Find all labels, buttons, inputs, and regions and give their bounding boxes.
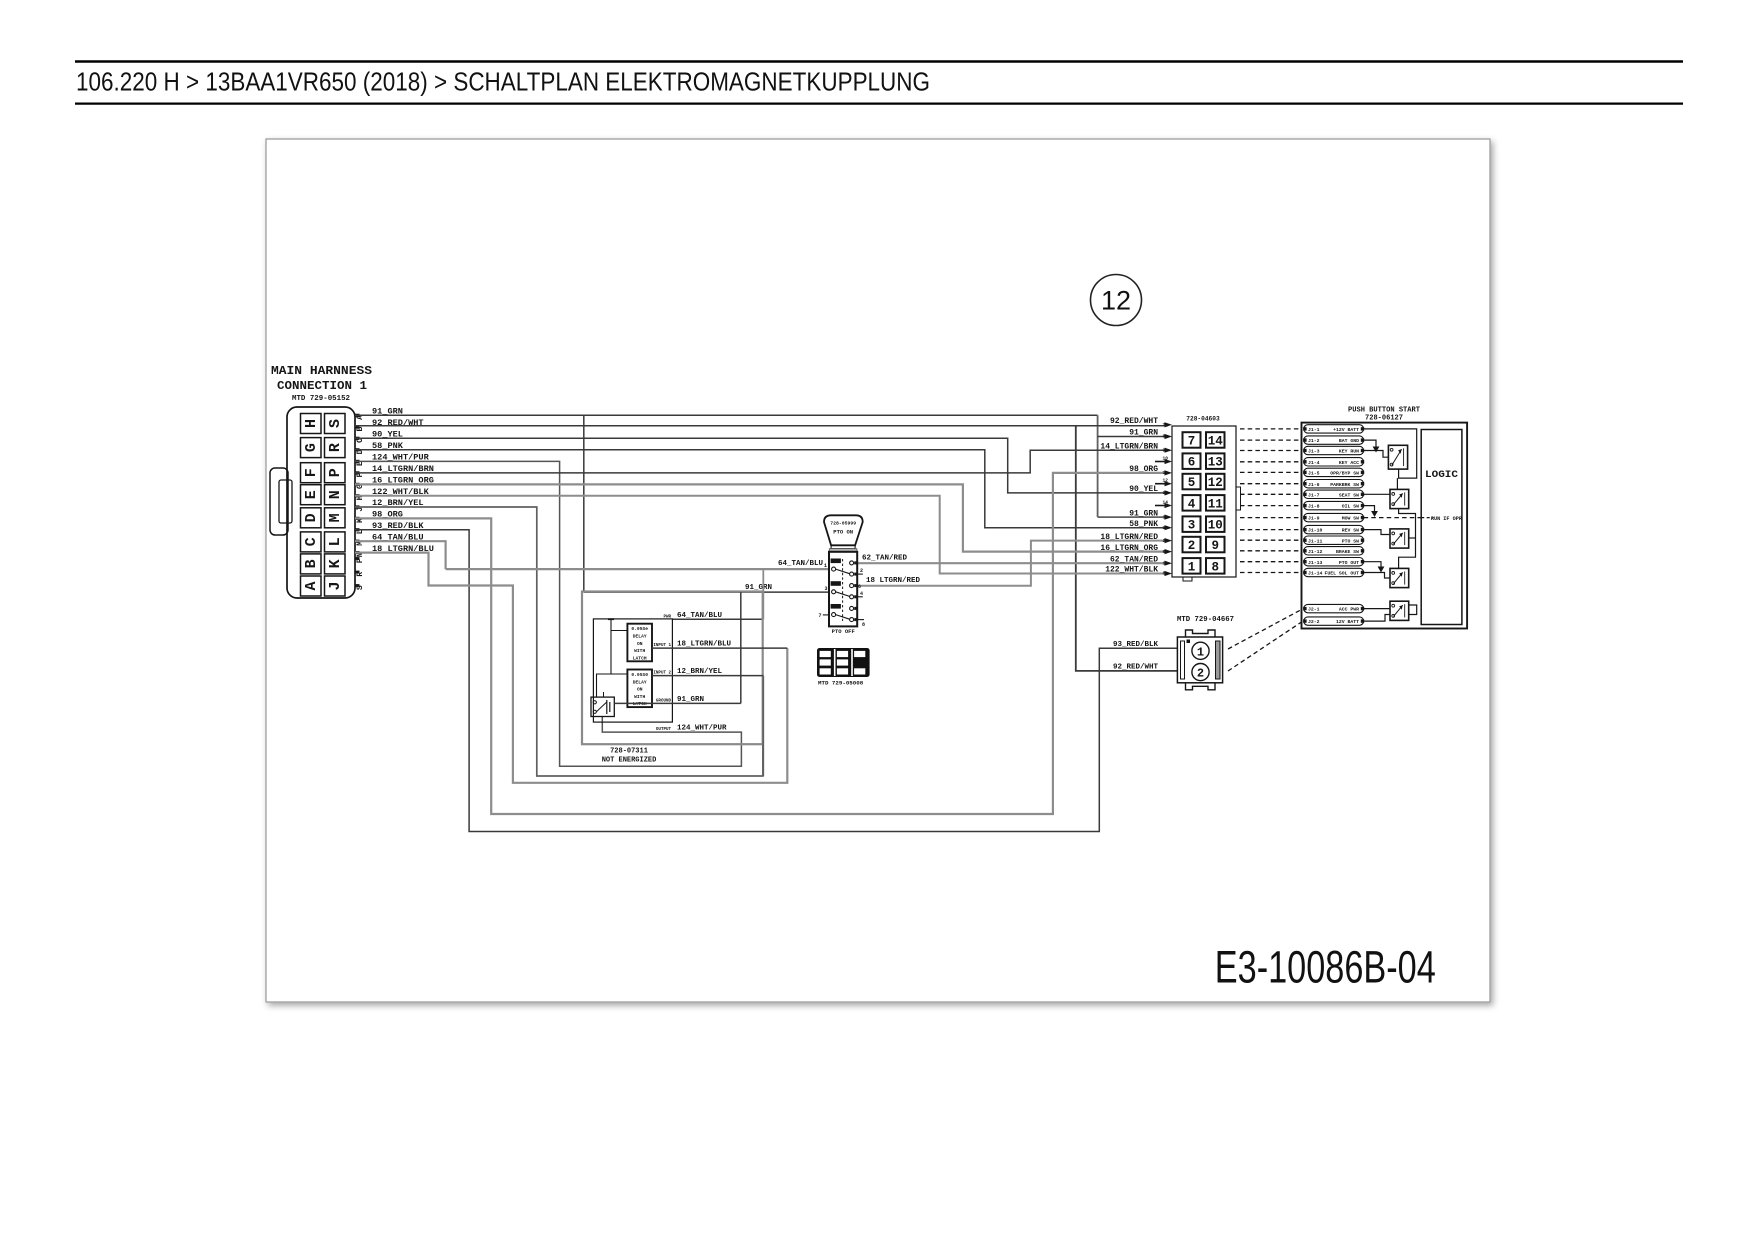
wire 122_WHT/BLK row H [355,496,1168,574]
wire 91_GRN drop to PTO [583,415,585,592]
svg-text:DELAY: DELAY [633,634,647,640]
connector MTD 729-04667 body [1177,637,1222,683]
svg-text:OPR/BYP SW: OPR/BYP SW [1330,471,1359,477]
svg-text:SEAT SW: SEAT SW [1339,492,1359,498]
wire FUEL SOL OUT to relay K4 [1364,573,1390,579]
pin cavity L [325,532,346,552]
pin cavity C [301,532,322,552]
svg-text:KEY ACC: KEY ACC [1339,460,1359,466]
svg-text:J1-11: J1-11 [1308,538,1323,544]
pin cavity A [301,576,322,596]
connector face legend MTD 729-05008 [817,648,870,677]
wire 92_RED/WHT row B [355,425,1168,427]
svg-text:7: 7 [1163,422,1166,428]
dashed link connector to push button module [1240,428,1302,430]
svg-text:10: 10 [1163,525,1169,531]
terminal pill J1-14 FUEL SOL OUT [1304,568,1364,576]
terminal pill J1-12 BRAKE SW [1304,547,1364,555]
svg-text:MAIN HARNNESS: MAIN HARNNESS [271,365,372,378]
terminal pill J1-9 MOW SW [1304,513,1364,521]
svg-text:J2-2: J2-2 [1308,619,1320,625]
wire 58_PNK row D [355,450,1168,528]
svg-text:PUSH BUTTON START: PUSH BUTTON START [1348,407,1420,415]
pin stub B [355,425,360,428]
pin stub N [355,551,360,554]
svg-text:J: J [327,581,344,590]
svg-text:11: 11 [1208,497,1223,511]
svg-text:3: 3 [1163,514,1166,520]
dashed link pin2 to J2-2 [1228,622,1302,671]
svg-text:CONNECTION 1: CONNECTION 1 [277,380,367,393]
svg-text:GROUND: GROUND [656,700,672,704]
wire 64_TAN/BLU row M [355,541,446,569]
pin stub K [355,517,360,520]
connector J1 left latch tab [270,468,288,535]
wire 91_GRN module riser [740,592,742,703]
svg-text:4: 4 [1188,497,1196,511]
terminal pill J1-5 OPR/BYP SW [1304,468,1364,476]
PTO pin 8 stub [857,619,864,621]
svg-text:92_RED/WHT: 92_RED/WHT [1113,664,1159,672]
svg-text:ON: ON [637,641,643,647]
svg-text:J1-5: J1-5 [1308,471,1320,477]
svg-text:REV SW: REV SW [1342,528,1359,534]
svg-text:728-07311: 728-07311 [610,748,648,756]
wire REV SW to relay K3 [1364,530,1390,535]
svg-text:12_BRN/YEL: 12_BRN/YEL [677,668,723,676]
svg-text:MOW SW: MOW SW [1342,516,1359,522]
terminal pill J1-13 PTO OUT [1304,558,1364,566]
connector pin 1 [1183,558,1201,574]
dashed link connector to push button module [1240,471,1302,473]
LOGIC box [1421,430,1462,625]
svg-text:J1-13: J1-13 [1308,560,1323,566]
svg-text:OUTPUT: OUTPUT [656,728,672,732]
svg-text:64_TAN/BLU: 64_TAN/BLU [677,612,723,620]
svg-text:9: 9 [1211,539,1219,553]
svg-text:0.05S0: 0.05S0 [631,672,648,678]
svg-text:2: 2 [1163,538,1166,544]
connector terminal arrow 18_LTGRN/RED [1165,538,1173,543]
PTO switch knob base [831,545,855,548]
wire SEAT SW to relay K2 [1364,493,1390,495]
dashed RUN IF OPR line [1364,517,1422,519]
wire 92_RED/WHT drop to 2-pin connector [1076,426,1178,671]
svg-text:6: 6 [858,584,861,590]
wire 98_ORG row K loop [355,473,1168,814]
wire 12_BRN/YEL module INPUT 2 [652,675,763,677]
relay K3 [1390,529,1409,548]
pin cavity K [325,554,346,574]
time delay module inner board [593,619,672,722]
svg-text:8: 8 [862,622,865,628]
wire PTO OUT to ground arrow [1364,562,1381,567]
svg-text:ACC PWR: ACC PWR [1339,607,1359,613]
delay block 1 [627,624,652,662]
connector pin 8 [1206,558,1225,574]
svg-text:14_LTGRN/BRN: 14_LTGRN/BRN [1100,442,1158,451]
diagram panel [266,139,1490,1002]
connector terminal arrow 90_YEL [1165,490,1173,495]
svg-text:124_WHT/PUR: 124_WHT/PUR [677,725,727,733]
wire ACC PWR to relay K5 [1364,608,1390,610]
svg-text:E: E [303,490,320,499]
terminal pill J1-10 REV SW [1304,525,1364,533]
terminal pill J1-11 PTO SW [1304,536,1364,544]
PTO switch 725-05999 knob [824,515,863,545]
svg-text:B: B [303,559,320,568]
svg-text:PTO ON: PTO ON [833,529,853,536]
svg-text:4: 4 [860,591,863,597]
svg-text:J1-9: J1-9 [1308,516,1320,522]
dashed link connector to push button module [1240,572,1302,574]
svg-text:18_LTGRN/RED: 18_LTGRN/RED [1100,533,1158,542]
svg-text:S: S [327,419,344,428]
svg-text:C: C [303,537,320,546]
svg-text:728-04603: 728-04603 [1186,416,1220,423]
PTO pin 2 stub [857,573,863,575]
svg-text:93_RED/BLK: 93_RED/BLK [1113,641,1159,649]
svg-text:18 LTGRN/RED: 18 LTGRN/RED [866,577,921,585]
relay K1 (start) [1388,445,1407,469]
svg-text:9: 9 [1163,549,1166,555]
connector pin 10 [1206,516,1225,532]
PTO contact group 3 [831,604,841,609]
wire 93_RED/BLK row L loop [355,530,1177,832]
pin cavity G [301,438,322,458]
wire 16_LTGRN_ORG row G [355,484,1168,551]
svg-text:ON: ON [637,687,643,693]
wire 12_BRN/YEL row J loop [355,507,763,776]
svg-text:106.220 H > 13BAA1VR650 (201: 106.220 H > 13BAA1VR650 (2018) > SCHALTP… [76,67,930,97]
svg-text:L: L [327,537,344,546]
connector terminal arrow 91_GRN [1165,515,1173,520]
pin cavity F [301,463,322,483]
svg-text:6: 6 [1188,456,1196,470]
wire 91_GRN drop to connector rows [1097,415,1099,517]
svg-text:MTD 729-04667: MTD 729-04667 [1177,616,1234,624]
svg-text:J1-3: J1-3 [1308,449,1320,455]
terminal pill J2-2 12V BATT [1304,617,1364,625]
svg-text:8: 8 [1211,560,1219,574]
svg-text:H: H [303,419,320,428]
dashed link connector to push button module [1240,450,1302,452]
svg-text:98_ORG: 98_ORG [1129,465,1158,474]
connector pin 13 [1206,453,1225,469]
svg-text:12: 12 [1101,286,1131,316]
pin cavity N [325,485,346,505]
PTO contact group 2 [831,581,841,586]
svg-text:G: G [303,443,320,452]
dashed link connector to push button module [1240,550,1302,552]
dashed link connector to push button module [1240,461,1302,463]
wire relay K1 to relay K2 [1396,478,1398,489]
wire OIL SW to ground arrow [1364,506,1375,511]
pin cavity B [301,554,322,574]
pin cavity E [301,485,322,505]
pin stub M [355,540,360,543]
dashed link connector to push button module [1240,505,1302,507]
svg-text:62_TAN/RED: 62_TAN/RED [1110,555,1158,564]
svg-text:INPUT 1: INPUT 1 [653,644,671,648]
svg-text:1: 1 [824,563,827,569]
wire relay K3 to bus [1409,537,1416,539]
wire BAT GND to ground arrow [1364,440,1376,446]
svg-text:LOGIC: LOGIC [1425,469,1459,481]
svg-text:90_YEL: 90_YEL [1129,485,1158,494]
PTO switch actuator dashed link [842,559,844,621]
connector pin 2 [1183,537,1201,553]
connector pin 12 [1206,474,1225,490]
svg-text:12: 12 [1163,478,1169,484]
pin cavity H [301,414,322,434]
svg-text:13: 13 [1208,456,1223,470]
svg-text:J1-2: J1-2 [1308,438,1320,444]
pin stub H [355,494,360,497]
svg-text:91_GRN: 91_GRN [1129,509,1158,518]
connector terminal arrow 98_ORG [1165,470,1173,475]
svg-text:LATCH: LATCH [633,655,647,661]
svg-text:122_WHT/BLK: 122_WHT/BLK [1105,566,1158,575]
svg-text:OIL SW: OIL SW [1342,504,1359,510]
svg-text:K: K [327,559,344,568]
connector terminal arrow 91_GRN [1165,434,1173,439]
wire KEY RUN to relay K1 [1364,451,1389,458]
svg-text:RUN IF OPR: RUN IF OPR [1431,516,1463,522]
svg-text:DELAY: DELAY [633,679,647,685]
wire 91_GRN to pin 14 row [1098,436,1168,438]
svg-text:WITH: WITH [634,648,645,654]
svg-text:3: 3 [824,586,827,592]
wire 91_GRN module GROUND [614,702,741,704]
terminal pill J1-4 KEY ACC [1304,458,1364,466]
wire relay K2 to relay K4 [1399,509,1416,569]
svg-text:MTD 729-05008: MTD 729-05008 [818,680,864,687]
wire 12V BATT to relay K5 [1364,615,1390,622]
svg-text:7: 7 [1188,435,1196,449]
connector pin 5 [1183,474,1201,490]
svg-text:J1-14: J1-14 [1308,571,1323,577]
dashed link connector to push button module [1240,483,1302,485]
pin cavity D [301,508,322,528]
svg-text:A: A [303,581,320,590]
connector terminal arrow pin 14 [1165,503,1173,508]
time delay module outer box [582,592,763,745]
relay K4 [1390,568,1409,587]
wire 18_LTGRN/RED from PTO pin 6 [857,541,1168,586]
connector terminal arrow 14_LTGRN/BRN [1165,448,1173,453]
wire 124_WHT/PUR row E loop to module output [355,461,741,766]
figure number circle 12 [1091,275,1142,326]
delay block 2 [627,670,652,708]
svg-text:2: 2 [860,568,863,574]
dashed link connector to push button module [1240,561,1302,563]
svg-text:728-06127: 728-06127 [1365,415,1403,423]
pin cavity J [325,576,346,596]
svg-text:16_LTGRN_ORG: 16_LTGRN_ORG [1100,544,1158,553]
svg-text:BRAKE SW: BRAKE SW [1336,549,1359,555]
svg-text:14: 14 [1163,499,1169,505]
svg-text:J1-7: J1-7 [1308,492,1320,498]
connector terminal arrow 92_RED/WHT [1165,422,1173,427]
terminal pill J1-8 OIL SW [1304,501,1364,509]
connector J1 body (main harness connection 1) [287,407,355,598]
connector 728-04603 body [1172,426,1236,577]
pin cavity R [325,438,346,458]
svg-text:WITH: WITH [634,694,645,700]
svg-text:N: N [327,490,344,499]
svg-text:7: 7 [818,613,821,619]
svg-text:+12V BATT: +12V BATT [1333,427,1359,433]
svg-text:R: R [327,443,344,452]
pin stub G [355,483,360,486]
module internal relay link [597,674,612,697]
wire 91_GRN to PTO pin 3 [584,591,829,593]
svg-text:5: 5 [1188,476,1196,490]
svg-text:NOT ENERGIZED: NOT ENERGIZED [602,757,657,765]
pin stub J [355,505,360,508]
pin stub L [355,528,360,531]
svg-text:KEY RUN: KEY RUN [1339,449,1359,455]
wire 64_TAN/BLU module PWR port [672,618,763,620]
dashed link connector to push button module [1240,493,1302,495]
svg-text:F: F [303,468,320,477]
push button start module box [1302,423,1468,629]
header rule bottom [75,102,1683,104]
svg-text:3: 3 [1188,519,1196,533]
PTO pin 7 stub [823,614,829,616]
wire relay K5 output [1409,605,1417,615]
svg-text:1: 1 [1188,560,1196,574]
svg-text:62_TAN/RED: 62_TAN/RED [862,554,908,562]
connector pin 4 [1183,495,1201,511]
svg-text:10: 10 [1163,455,1169,461]
dashed link pin1 to J2-1 [1228,610,1302,650]
connector terminal arrow pin 10 [1165,459,1173,464]
svg-text:FUEL SOL OUT: FUEL SOL OUT [1324,571,1359,577]
connector 729-04667 pin 1 [1192,642,1209,659]
wire 14_LTGRN/BRN row F [355,450,1168,473]
pin cavity M [325,508,346,528]
connector terminal arrow 62_TAN/RED [1165,561,1173,566]
PTO pin 4 stub [857,596,863,598]
dashed link connector to push button module [1240,439,1302,441]
svg-text:E3-10086B-04: E3-10086B-04 [1215,942,1436,993]
terminal pill J1-6 PARKBRK SW [1304,480,1364,488]
pin stub F [355,471,360,474]
wire 18_LTGRN/BLU module INPUT 1 [652,647,787,649]
svg-text:2: 2 [1197,667,1204,681]
pin cavity S [325,414,346,434]
relay K2 [1390,489,1409,508]
svg-text:J1-12: J1-12 [1308,549,1323,555]
dashed link connector to push button module [1240,539,1302,541]
svg-text:18_LTGRN/BLU: 18_LTGRN/BLU [677,641,732,649]
svg-text:D: D [303,513,320,522]
pin stub A [355,414,360,417]
svg-text:INPUT 2: INPUT 2 [653,672,671,676]
svg-text:J1-10: J1-10 [1308,528,1323,534]
terminal pill J2-1 ACC PWR [1304,604,1364,612]
svg-text:1: 1 [1197,645,1204,659]
wire 18_LTGRN/BLU row N loop [355,553,787,783]
svg-text:13: 13 [1163,490,1169,496]
pin stub D [355,448,360,451]
svg-text:10: 10 [1208,519,1223,533]
terminal pill J1-1 +12V BATT [1304,425,1364,433]
wire 64_TAN/BLU to PTO pin 1 [446,568,829,570]
pin cavity P [325,463,346,483]
connector pin 6 [1183,453,1201,469]
wire 64_TAN/BLU riser to module PWR [762,569,764,619]
svg-text:J1-1: J1-1 [1308,427,1320,433]
svg-text:728-05999: 728-05999 [830,521,856,527]
svg-text:J1-6: J1-6 [1308,482,1320,488]
svg-text:J1-8: J1-8 [1308,504,1320,510]
svg-text:2: 2 [1188,539,1196,553]
svg-text:BAT GND: BAT GND [1339,438,1359,444]
svg-text:1: 1 [1163,560,1166,566]
wire 91_GRN to pin 3 row [1098,516,1168,518]
svg-text:LATCH: LATCH [633,701,647,707]
terminal pill J1-7 SEAT SW [1304,490,1364,498]
module relay K1 [591,697,614,716]
svg-text:PTO OUT: PTO OUT [1339,560,1359,566]
svg-text:8: 8 [1163,571,1166,577]
svg-text:PTO OFF: PTO OFF [832,628,855,635]
wire +12V BATT to relay K1 [1364,429,1417,478]
module internal PWR rail [611,619,627,674]
svg-text:91_GRN: 91_GRN [1129,429,1158,438]
PTO contact group 1 [831,559,841,564]
connector pin 3 [1183,516,1201,532]
terminal pill J1-3 KEY RUN [1304,446,1364,454]
svg-text:12: 12 [1208,476,1223,490]
connector pin 7 [1183,432,1201,448]
connector terminal arrow pin 12 [1165,481,1173,486]
svg-text:P: P [327,468,344,477]
svg-text:12V BATT: 12V BATT [1336,619,1359,625]
terminal pill J1-2 BAT GND [1304,436,1364,444]
svg-text:8: 8 [1163,434,1166,440]
header rule top [75,60,1683,62]
svg-text:J2-1: J2-1 [1308,607,1320,613]
svg-text:14: 14 [1208,435,1224,449]
svg-text:11: 11 [1163,470,1169,476]
PTO switch body [829,552,857,627]
connector pin 11 [1206,495,1225,511]
svg-text:MTD 729-05152: MTD 729-05152 [292,395,350,403]
svg-text:J1-4: J1-4 [1308,460,1320,466]
pin stub C [355,437,360,440]
svg-text:PTO SW: PTO SW [1342,538,1359,544]
dashed link connector to push button module [1240,529,1302,531]
connector terminal arrow 58_PNK [1165,525,1173,530]
wire 12_BRN/YEL riser [762,676,764,776]
connector pin 9 [1206,537,1225,553]
svg-text:91_GRN: 91_GRN [677,696,704,704]
connector 729-04667 pin 2 [1192,664,1209,681]
svg-text:58_PNK: 58_PNK [1129,520,1158,529]
wire 90_YEL row C [355,438,1168,493]
svg-text:PARKBRK SW: PARKBRK SW [1330,482,1359,488]
wire 91_GRN row A [355,414,1098,416]
svg-text:92_RED/WHT: 92_RED/WHT [372,418,424,428]
connector pin 14 [1206,432,1225,448]
connector terminal arrow 16_LTGRN_ORG [1165,549,1173,554]
relay K5 [1390,601,1409,620]
wire 62_TAN/RED from PTO pin 2 [857,562,1168,564]
